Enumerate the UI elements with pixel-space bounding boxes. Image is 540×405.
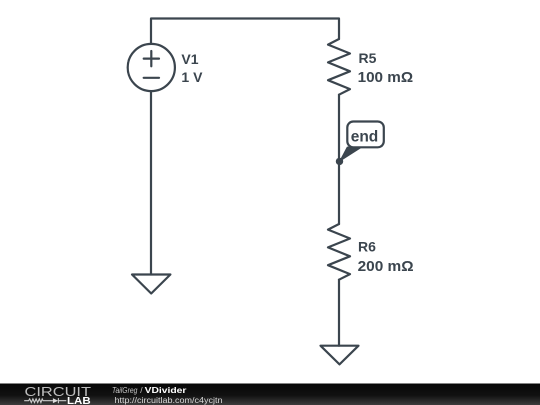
wire V1 minus to ground: [150, 91, 152, 274]
svg-text:VDivider: VDivider: [145, 385, 188, 395]
voltage source V1 circle: [128, 44, 175, 91]
V1 minus sign: [144, 77, 159, 79]
wire top net: V1 plus to R5 top: [151, 19, 339, 45]
svg-text:end: end: [351, 129, 379, 146]
svg-text:TailGreg: TailGreg: [112, 385, 138, 395]
logo diode triangle: [53, 398, 58, 403]
ground (right, under R6): [321, 346, 359, 365]
resistor R6: [328, 224, 350, 280]
svg-text:100 mΩ: 100 mΩ: [358, 70, 414, 86]
node end junction dot: [336, 158, 343, 165]
resistor R5: [328, 39, 350, 95]
svg-text:R6: R6: [358, 239, 376, 255]
svg-text:LAB: LAB: [67, 396, 91, 405]
wire R5 bottom to R6 top (node end): [338, 95, 340, 224]
wire R6 bottom to ground: [338, 280, 340, 346]
node end flag tail: [340, 147, 362, 161]
logo resistor zigzag + diode: [24, 398, 66, 403]
ground (left, under V1): [132, 275, 170, 294]
node end flag bubble: [347, 122, 384, 148]
svg-text:R5: R5: [359, 50, 377, 66]
svg-text:V1: V1: [181, 51, 198, 67]
svg-text:200 mΩ: 200 mΩ: [358, 259, 414, 275]
V1 plus sign: [144, 51, 159, 66]
svg-text:http://circuitlab.com/c4ycjtn: http://circuitlab.com/c4ycjtn: [115, 395, 223, 405]
svg-text:1 V: 1 V: [181, 69, 203, 85]
